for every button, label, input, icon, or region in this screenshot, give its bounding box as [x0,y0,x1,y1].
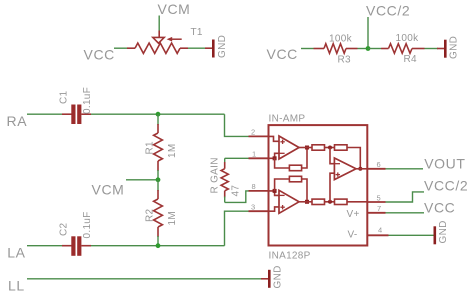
junction node LA/R2 [156,243,161,248]
svg-text:VCC/2: VCC/2 [424,178,468,194]
wire to pin 5 [347,201,367,203]
resistor RB1 [312,199,325,204]
buffer amp A1 [269,136,300,160]
capacitor C2 [59,211,94,255]
svg-text:VCC/2: VCC/2 [366,3,410,19]
node D2 [328,200,332,204]
pin 5 [367,201,385,203]
node A1 out [305,146,309,150]
wire [325,147,335,149]
resistor R GAIN [210,157,249,202]
wire RA down to pin 2 [225,114,249,136]
capacitor C1 [59,87,94,124]
svg-text:0.1uF: 0.1uF [82,87,93,114]
svg-text:100k: 100k [396,33,420,44]
svg-text:VCC: VCC [84,47,115,63]
wire pin 5 to VCC/2 [386,192,425,202]
svg-text:R3: R3 [338,55,352,66]
wire to feedback corner [347,148,360,169]
ground (top-right) [437,36,460,59]
svg-text:8: 8 [252,182,256,191]
resistor RT1 [312,145,325,150]
ground (top-left) [205,35,228,58]
wire RA to C1 [27,113,62,115]
pin 8 [249,190,269,192]
svg-text:VCC: VCC [424,199,455,215]
svg-text:VCC: VCC [267,46,298,62]
svg-text:RA: RA [7,113,28,129]
junction node RA/R1 [156,112,161,117]
svg-text:3: 3 [251,203,255,212]
wire VCM to node [126,179,158,181]
svg-text:1M: 1M [167,211,178,226]
svg-text:LL: LL [8,277,25,293]
pin 4 [367,234,388,236]
svg-text:VCM: VCM [158,1,191,17]
svg-text:R4: R4 [404,54,418,65]
svg-text:V-: V- [348,230,358,241]
resistor R2 [145,180,179,246]
svg-text:1M: 1M [167,144,178,159]
junction node VCC/2 [366,46,371,51]
wire R4 to GND [425,48,439,50]
wire T1 to GND [188,47,206,49]
svg-text:V+: V+ [347,209,360,220]
svg-text:5: 5 [377,193,381,202]
svg-text:INA128P: INA128P [269,251,311,262]
feedback resistor A1 [275,148,307,171]
svg-text:4: 4 [378,226,382,235]
pin 7 [367,212,385,214]
wire [325,201,335,203]
svg-text:47: 47 [231,185,242,197]
op-amp U1 box INA128P [269,125,368,245]
pin 2 [249,135,269,137]
svg-text:7: 7 [377,204,381,213]
wire LA up to pin 3 [225,211,249,246]
wire R3 to node [358,48,371,50]
output amp A3 [330,148,367,202]
node D1 [328,146,332,150]
svg-text:0.1uF: 0.1uF [82,211,93,238]
svg-text:R1: R1 [145,141,156,155]
wire LA to C2 [27,245,62,247]
svg-text:GND: GND [273,265,284,288]
svg-text:VCM: VCM [92,182,125,198]
resistor R4 [381,33,425,65]
svg-text:GND: GND [449,36,460,59]
svg-text:1: 1 [252,150,256,159]
svg-text:LA: LA [7,244,25,260]
svg-text:R2: R2 [145,208,156,222]
pin 3 [249,210,269,212]
wire node to R4 [368,48,381,50]
svg-text:VOUT: VOUT [424,155,465,171]
wire A2 out [299,201,312,203]
resistor R3 [314,34,358,66]
ground (LL) [261,265,284,288]
feedback resistor A2 [275,176,307,202]
wire pin 6 to VOUT [386,168,424,170]
svg-text:T1: T1 [191,27,203,38]
wire C1 to RA node and onward [91,113,225,115]
wire VCC to R3 [301,48,314,50]
svg-text:C1: C1 [59,90,70,104]
resistor R1 [145,114,179,180]
wire LL to GND [27,278,262,280]
node D3 [358,167,362,171]
wire R GAIN to pin 8 [225,191,249,203]
junction node VCM [156,177,161,182]
svg-text:C2: C2 [59,222,70,236]
svg-text:100k: 100k [329,34,353,45]
svg-text:IN-AMP: IN-AMP [269,114,306,125]
svg-text:2: 2 [251,128,255,137]
wire pin 7 to VCC [386,212,425,214]
wire pin 4 to GND [389,234,434,236]
svg-text:GND: GND [217,35,228,58]
pin 6 [367,168,385,170]
ground (pin 4) [434,220,450,244]
wire VCC/2 down to node [367,17,369,49]
svg-text:GND: GND [438,220,449,243]
resistor RB2 [335,199,348,204]
node A2 out [305,200,309,204]
pin 1 [249,157,269,159]
wire C2 to LA node and onward [91,245,225,247]
svg-text:6: 6 [377,160,381,169]
wire A1 out [299,147,312,149]
trimmer T1 [127,31,188,54]
svg-text:R GAIN: R GAIN [210,157,221,193]
buffer amp A2 [269,189,300,213]
wire VCM to T1 wiper [158,16,160,32]
resistor RT2 [335,145,348,150]
wire VCC to T1 [114,47,127,49]
